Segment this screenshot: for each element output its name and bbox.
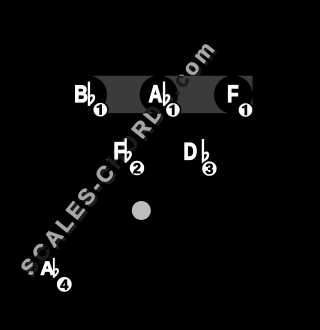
fret marker dot [132, 201, 151, 220]
note circle Bb fret1 [69, 76, 107, 114]
finger 1 on F [238, 102, 253, 117]
label Db letter [185, 143, 197, 160]
label Ab flat [163, 82, 170, 106]
label Ab letter [149, 85, 162, 102]
label Fb letter [115, 142, 125, 159]
note circle Fb hidden [106, 134, 144, 172]
watermark main copy [19, 41, 214, 277]
label Ab low flat [53, 258, 59, 278]
finger 1 on Ab [165, 102, 180, 117]
note circle Db hidden [178, 134, 216, 172]
label Bb flat [88, 82, 95, 106]
label Ab low letter [41, 262, 54, 275]
finger 1 on Bb [93, 102, 108, 117]
finger 4 on Ab low [56, 276, 72, 292]
label Bb letter [75, 86, 87, 103]
finger 3 on Db [201, 161, 217, 177]
finger 2 on Fb [129, 160, 145, 176]
watermark shadow copy [22, 43, 217, 279]
label F letter [228, 85, 238, 102]
label Fb flat [125, 138, 132, 162]
note circle Ab fret1 [140, 75, 178, 113]
label Db flat [202, 139, 209, 163]
note circle F fret1 [214, 75, 253, 114]
watermark dark copy over band and note circles [19, 41, 214, 277]
fret band [87, 76, 253, 113]
note circle Ab low hidden [33, 248, 72, 287]
